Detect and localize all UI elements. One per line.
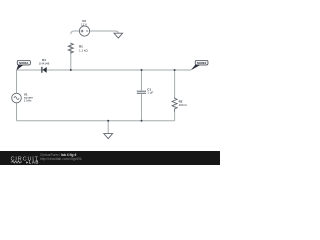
svg-text:1N4148: 1N4148 (39, 62, 50, 66)
svg-text:NODE2: NODE2 (197, 61, 207, 65)
svg-text:1 µF: 1 µF (147, 91, 153, 95)
svg-text:▸LAB: ▸LAB (25, 160, 39, 165)
svg-text:12 V: 12 V (81, 23, 87, 27)
svg-text:100 Ω: 100 Ω (179, 103, 188, 107)
svg-text:http://circuitlab.com/c5gv59k: http://circuitlab.com/c5gv59k (40, 157, 82, 161)
svg-text:1 kHz: 1 kHz (24, 99, 32, 103)
svg-text:NODE1: NODE1 (19, 61, 29, 65)
svg-text:1.2 kΩ: 1.2 kΩ (79, 48, 89, 52)
